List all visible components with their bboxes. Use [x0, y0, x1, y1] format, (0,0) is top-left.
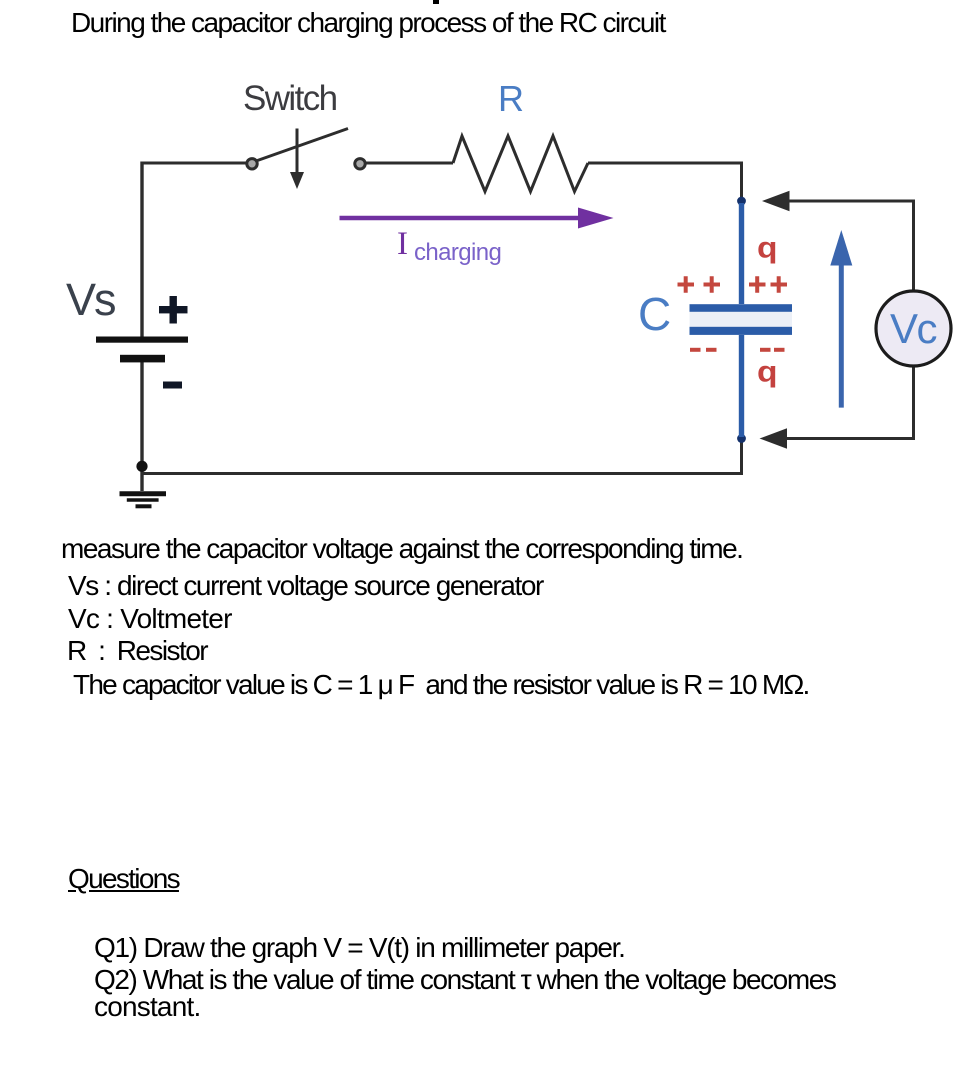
svg-text:q: q — [757, 230, 778, 264]
svg-text:I: I — [397, 226, 408, 262]
resistor R — [453, 136, 588, 192]
svg-text:R: R — [498, 78, 524, 119]
battery + label — [159, 296, 188, 324]
wire: switch right contact to resistor — [366, 162, 453, 165]
voltmeter branch top wire with arrow — [762, 191, 914, 291]
wire: top-left horizontal (battery to switch) — [142, 162, 249, 165]
battery - label — [163, 382, 182, 389]
switch — [247, 129, 365, 190]
svg-text:C: C — [638, 288, 671, 340]
svg-text:q: q — [757, 354, 778, 388]
charge labels ++ (top-left of plate) — [678, 276, 721, 292]
voltmeter branch bottom wire with arrow — [760, 366, 914, 449]
wire: resistor to top-right corner and down to top node — [588, 163, 742, 199]
ground — [120, 494, 167, 507]
node: capacitor bottom junction — [737, 434, 746, 443]
wire: battery - plate down to ground node — [140, 362, 143, 491]
svg-text:Vc: Vc — [890, 305, 937, 352]
voltmeter Vc — [876, 291, 951, 366]
charge labels -- (bottom-right of plate) — [760, 348, 785, 352]
capacitor C — [690, 203, 793, 437]
wire: bottom node down to bottom-right corner — [740, 438, 743, 474]
voltage direction arrow (blue, pointing up) — [830, 230, 852, 408]
node: battery/ground junction — [136, 461, 147, 472]
cut-off bold glyph at very top — [433, 0, 439, 4]
charge labels -- (bottom-left of plate) — [690, 348, 717, 352]
current arrow I charging — [340, 208, 614, 229]
node: capacitor top junction — [737, 197, 746, 206]
battery Vs — [96, 337, 188, 363]
svg-text:charging: charging — [414, 239, 501, 266]
wire: left vertical (top corner down to battery + plate) — [140, 162, 143, 338]
wire: bottom horizontal (ground node to capacitor bottom) — [142, 472, 743, 475]
charge labels ++ (top-right of plate) — [749, 276, 787, 292]
svg-text:Switch: Switch — [243, 79, 337, 118]
svg-text:Vs: Vs — [66, 274, 115, 325]
